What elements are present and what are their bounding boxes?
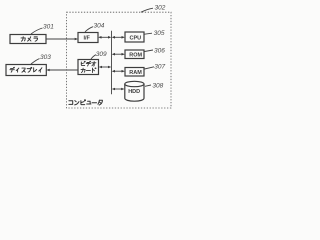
svg-text:305: 305 [154,30,165,37]
svg-text:ROM: ROM [129,53,142,59]
svg-text:I/F: I/F [84,36,91,42]
svg-text:RAM: RAM [129,70,142,76]
svg-text:CPU: CPU [130,35,142,41]
svg-text:309: 309 [96,51,107,58]
svg-text:303: 303 [40,54,51,61]
svg-text:308: 308 [152,82,163,89]
svg-text:302: 302 [155,4,166,11]
svg-text:304: 304 [94,23,105,30]
svg-text:307: 307 [154,64,165,71]
svg-text:306: 306 [154,47,165,54]
svg-text:301: 301 [43,24,54,31]
svg-text:HDD: HDD [128,89,140,95]
